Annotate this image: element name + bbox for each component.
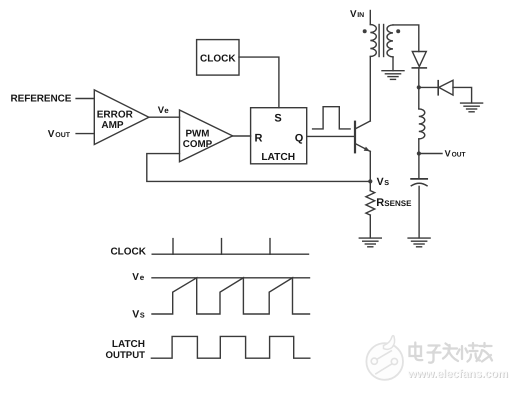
wire: RSENSE to ground <box>369 215 371 238</box>
ground (C1) <box>408 238 430 247</box>
svg-text:SENSE: SENSE <box>384 199 412 208</box>
wire: junction to inductor L1 <box>418 87 420 109</box>
wire: VIN feed <box>369 11 371 25</box>
wire: secondary bottom to ground <box>392 57 394 71</box>
node VS <box>368 179 372 183</box>
wire: junction to diode D2 <box>419 86 438 88</box>
svg-text:e: e <box>140 273 145 282</box>
waveform: latch output square wave <box>151 336 309 358</box>
ground (transformer secondary) <box>382 71 404 80</box>
op-amp U1 ERROR AMP <box>94 90 149 145</box>
wire: VOUT stub <box>419 153 442 155</box>
wire: L1 to VOUT node <box>418 139 420 154</box>
svg-text:V: V <box>377 176 384 188</box>
svg-text:COMP: COMP <box>183 139 213 150</box>
svg-text:LATCH: LATCH <box>261 152 295 163</box>
wire: C1 to ground <box>418 186 420 238</box>
svg-text:e: e <box>164 106 169 115</box>
wire: VS feedback to PWM comp inverting input <box>147 154 370 182</box>
svg-text:AMP: AMP <box>101 120 124 131</box>
wire: Q1 collector to transformer primary <box>369 57 371 122</box>
wire: error amp output Ve to PWM comp <box>149 116 180 118</box>
wire: clock output to latch S input <box>239 57 279 108</box>
node VOUT <box>417 151 421 155</box>
label LATCH OUTPUT <box>106 339 146 361</box>
svg-text:CLOCK: CLOCK <box>110 247 146 258</box>
waveform: Vs ramps <box>152 278 310 314</box>
svg-text:R: R <box>255 133 263 145</box>
svg-text:V: V <box>350 9 357 20</box>
watermark url text <box>407 367 509 381</box>
svg-text:LATCH: LATCH <box>112 339 145 350</box>
wire: VS node to RSENSE <box>369 181 371 190</box>
label VOUT (feedback sense input) <box>48 129 71 140</box>
node: D1/D2/L1 junction <box>417 85 421 89</box>
svg-text:CLOCK: CLOCK <box>200 54 236 65</box>
waveform: clock pulses <box>152 239 308 255</box>
transformer T1 <box>370 25 393 57</box>
latch U3 <box>251 108 307 164</box>
label Vs (waveform) <box>132 309 145 321</box>
label RSENSE <box>376 197 412 209</box>
svg-text:V: V <box>48 129 55 140</box>
polarity dot (secondary) <box>396 29 400 33</box>
label VOUT (output) <box>445 149 466 159</box>
wire: D1 cathode to junction node <box>418 68 420 88</box>
wire: VOUT to error amp input <box>76 133 94 135</box>
svg-text:Q: Q <box>295 133 304 145</box>
svg-text:PWM: PWM <box>186 128 210 139</box>
wire: PWM comp output to latch R input <box>233 135 251 137</box>
svg-text:V: V <box>132 309 139 321</box>
svg-text:OUTPUT: OUTPUT <box>106 350 146 361</box>
svg-text:www.elecfans.com: www.elecfans.com <box>407 367 508 380</box>
label VIN <box>350 9 364 20</box>
diode D1 (rectifier) <box>412 52 426 68</box>
node label Ve <box>158 105 170 116</box>
svg-text:OUT: OUT <box>55 132 71 139</box>
diode D2 (freewheel) <box>438 80 453 95</box>
transistor Q1 (NPN switch) <box>355 121 370 152</box>
inductor L1 <box>419 109 425 139</box>
resistor RSENSE <box>366 191 375 216</box>
svg-text:OUT: OUT <box>452 152 466 159</box>
svg-text:S: S <box>140 311 145 320</box>
wire: REFERENCE to error amp input <box>76 98 94 100</box>
wire: latch Q output to Q1 base <box>307 135 355 137</box>
watermark logo (elecfans) <box>366 336 403 380</box>
svg-text:REFERENCE: REFERENCE <box>11 94 72 105</box>
wire: D2 anode to ground <box>453 87 472 103</box>
capacitor C1 <box>411 179 427 186</box>
clock generator CLOCK <box>197 40 239 76</box>
svg-text:IN: IN <box>357 12 364 19</box>
wire: Q1 emitter to VS node <box>369 151 371 181</box>
label VS <box>377 176 390 188</box>
svg-text:S: S <box>384 178 389 187</box>
label Ve (waveform) <box>132 272 145 283</box>
wire: VOUT node to capacitor C1 <box>418 154 420 179</box>
svg-text:S: S <box>274 112 281 124</box>
watermark chinese characters (approximation) <box>410 343 493 363</box>
wire: secondary top to diode D1 <box>393 25 419 52</box>
waveform: Ve level <box>152 277 310 279</box>
gate drive pulse symbol <box>313 107 351 129</box>
svg-text:V: V <box>132 272 139 283</box>
comparator U2 PWM COMP <box>180 110 233 162</box>
polarity dot (primary) <box>363 29 367 33</box>
svg-text:R: R <box>376 197 384 209</box>
ground (RSENSE) <box>359 238 381 247</box>
ground (D2) <box>461 103 483 112</box>
svg-text:V: V <box>445 149 451 159</box>
